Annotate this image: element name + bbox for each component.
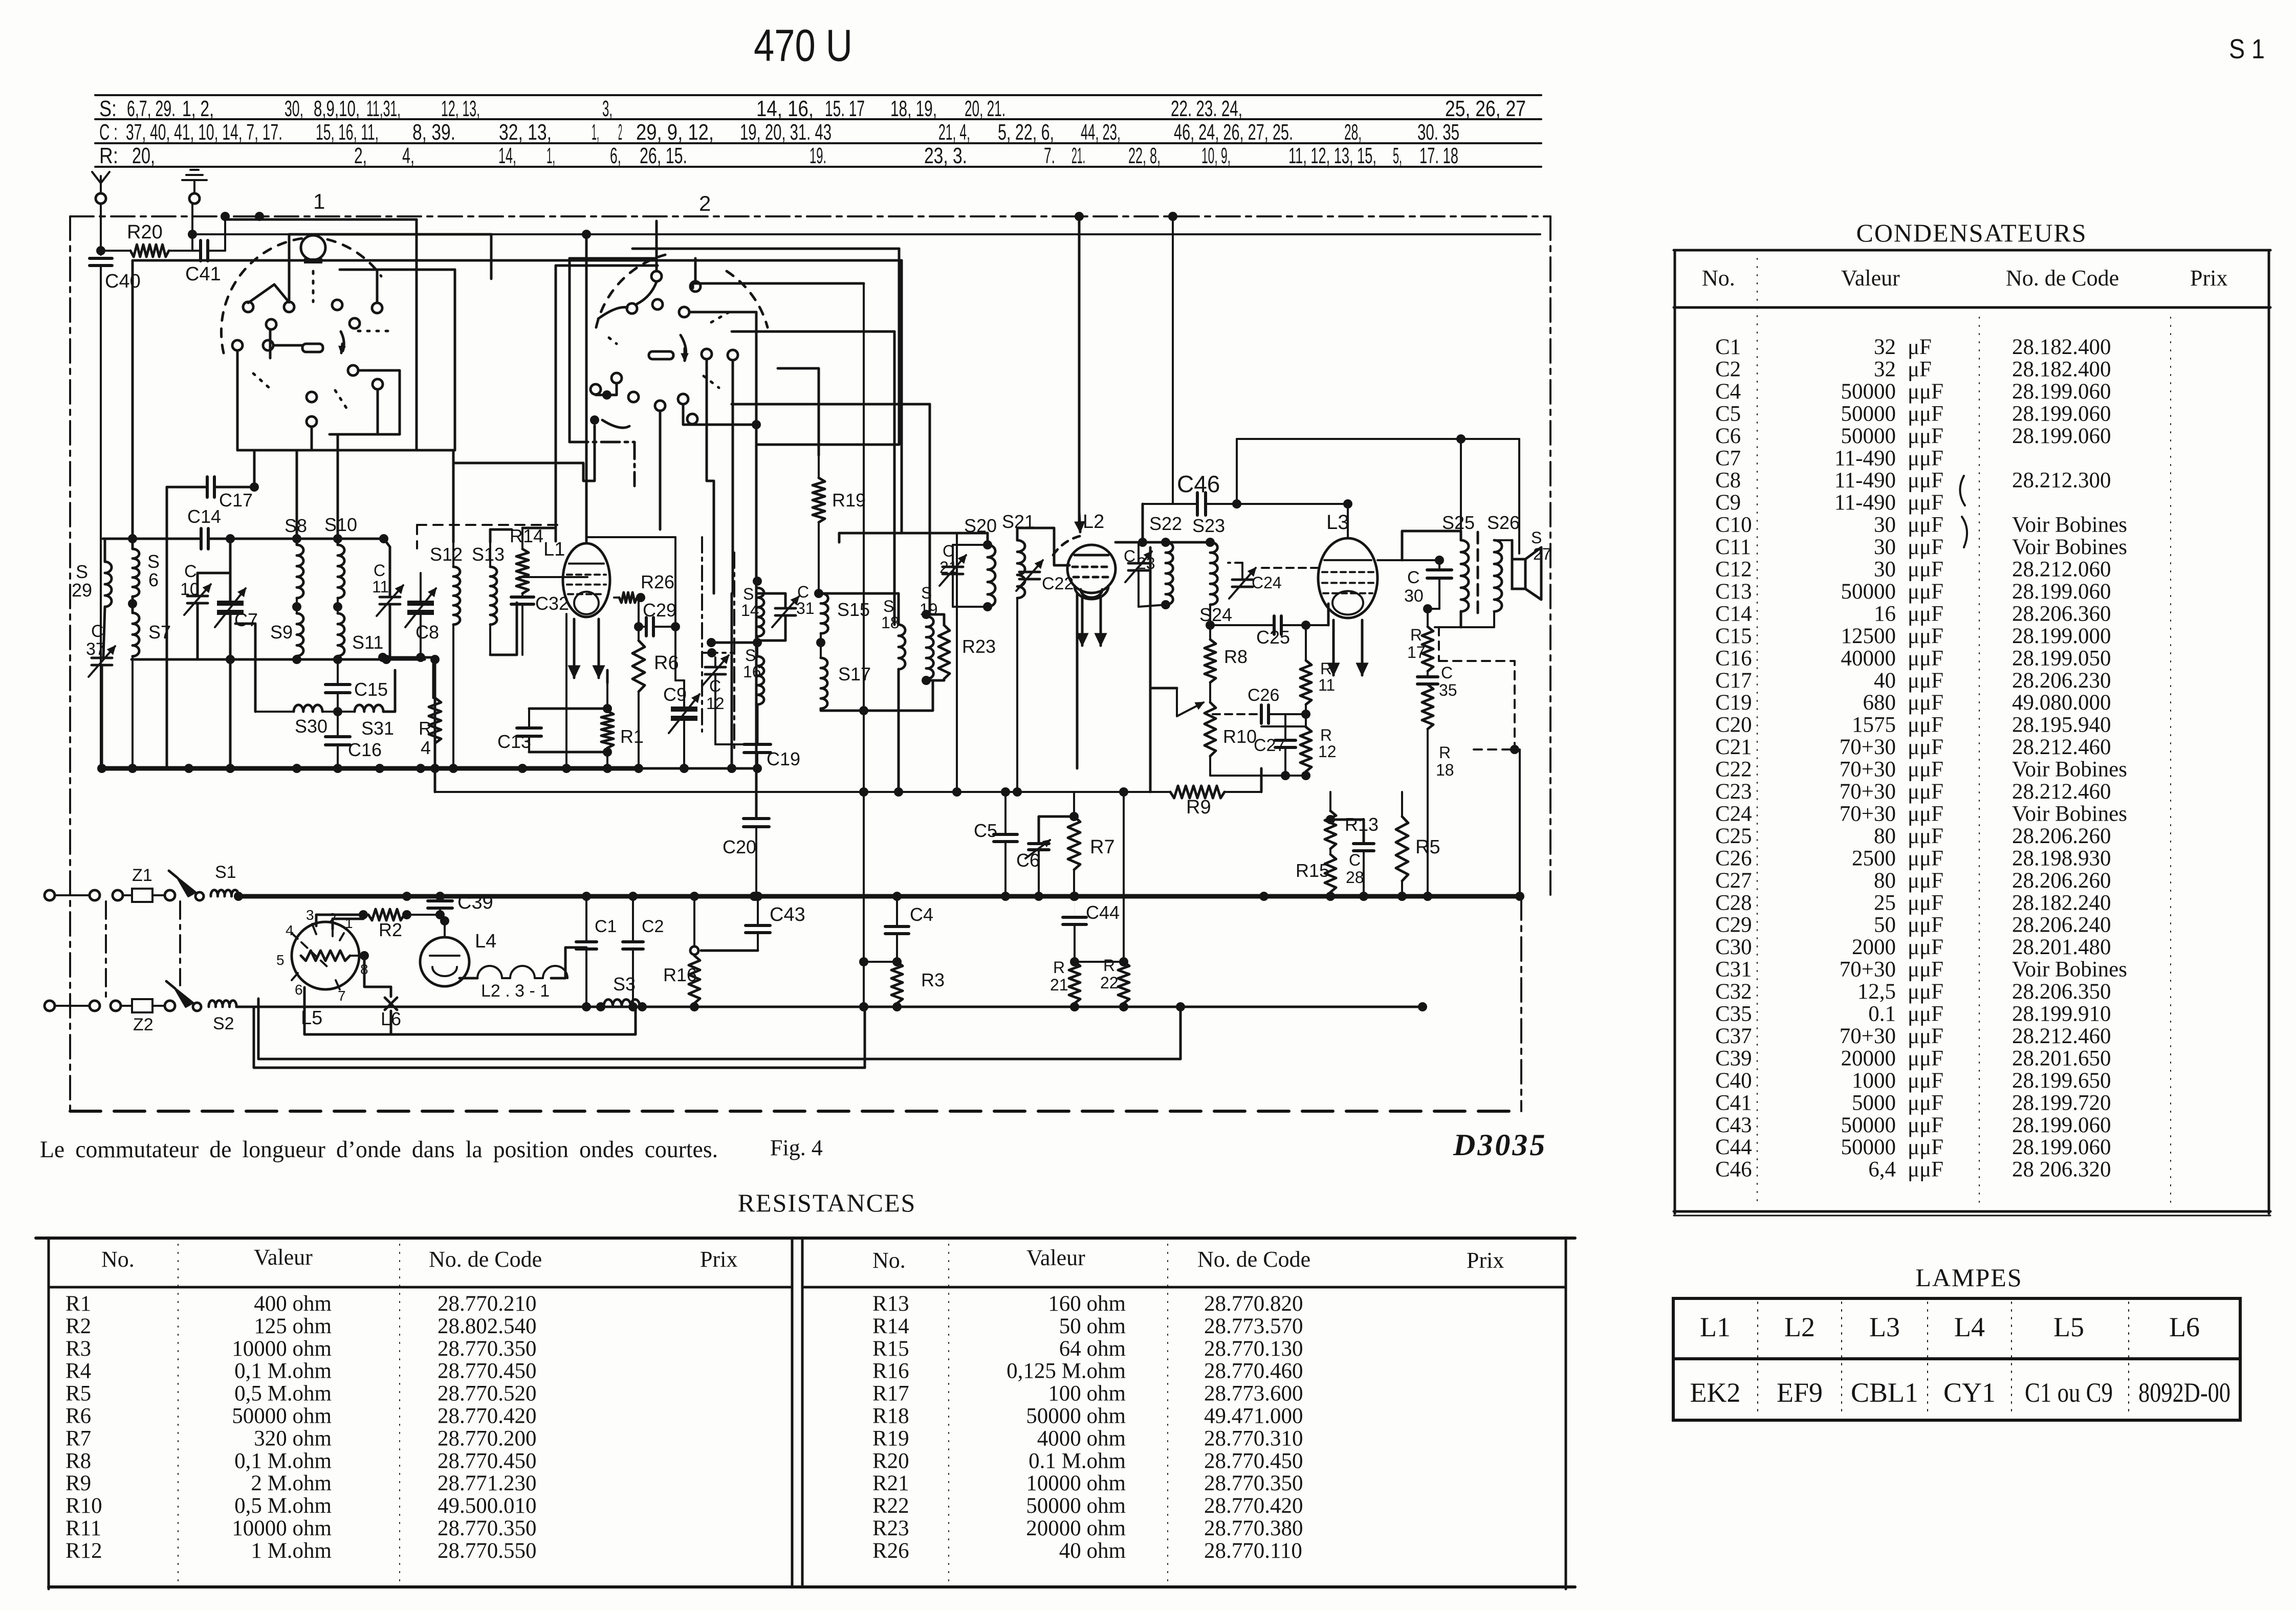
svg-text:14,: 14, (498, 143, 516, 168)
svg-text:C41: C41 (1715, 1091, 1752, 1115)
svg-text:0,5 M.ohm: 0,5 M.ohm (234, 1494, 332, 1518)
svg-text:R4: R4 (65, 1359, 91, 1383)
svg-text:6,7, 29.: 6,7, 29. (127, 96, 176, 121)
svg-text:R21: R21 (872, 1471, 909, 1495)
svg-text:R26: R26 (872, 1539, 909, 1563)
wire S10 feed (337, 434, 339, 545)
coil S18 (899, 625, 905, 669)
svg-text:70+30: 70+30 (1840, 958, 1896, 982)
svg-text:4,: 4, (402, 143, 414, 168)
switch ganged dash link (179, 901, 181, 985)
wire contact5 down (269, 329, 272, 358)
resistor R19 (818, 455, 820, 478)
svg-text:μμF: μμF (1908, 1113, 1943, 1137)
svg-text:28.770.820: 28.770.820 (1204, 1292, 1303, 1316)
svg-text:R18: R18 (872, 1404, 909, 1428)
svg-text:C41: C41 (185, 263, 221, 285)
wire S7 bottom to bus (132, 656, 134, 768)
wire wafer2 rail y519 (556, 264, 658, 267)
svg-text:R1: R1 (65, 1292, 91, 1316)
svg-text:64 ohm: 64 ohm (1059, 1337, 1126, 1361)
svg-text:28.199.720: 28.199.720 (2012, 1091, 2111, 1115)
svg-text:50000 ohm: 50000 ohm (1026, 1404, 1126, 1428)
svg-text:19, 20, 31. 43: 19, 20, 31. 43 (740, 120, 832, 145)
svg-text:C10: C10 (1715, 513, 1752, 537)
trimmer C21 (943, 566, 963, 568)
svg-text:28.770.450: 28.770.450 (438, 1449, 537, 1473)
svg-text:C46: C46 (1177, 471, 1220, 497)
dots on mains bus (234, 892, 243, 901)
svg-text:50000: 50000 (1841, 402, 1896, 426)
svg-text:No.: No. (1702, 266, 1735, 291)
svg-text:28.182.400: 28.182.400 (2012, 357, 2111, 381)
svg-text:Le commutateur de longueur d’o: Le commutateur de longueur d’onde dans l… (40, 1136, 718, 1163)
rotary switch wafer 1 arc (221, 238, 306, 353)
svg-text:49.500.010: 49.500.010 (438, 1494, 537, 1518)
svg-text:C15: C15 (1715, 624, 1752, 648)
svg-text:11: 11 (1318, 676, 1335, 694)
svg-text:Voir Bobines: Voir Bobines (2012, 513, 2127, 537)
wire contact12 elbow (683, 405, 756, 425)
svg-text:11-490: 11-490 (1834, 469, 1896, 493)
svg-text:28.201.650: 28.201.650 (2012, 1046, 2111, 1070)
svg-text:70+30: 70+30 (1840, 802, 1896, 826)
svg-text:R26: R26 (641, 571, 674, 592)
lamp L6 (364, 956, 391, 997)
wire feeder wafer2 y554 (693, 283, 864, 288)
svg-text:19.: 19. (810, 143, 826, 168)
svg-text:28.212.300: 28.212.300 (2012, 469, 2111, 493)
svg-text:C35: C35 (1715, 1002, 1752, 1026)
svg-text:1: 1 (313, 189, 325, 213)
svg-text:15, 16, 11,: 15, 16, 11, (316, 120, 379, 145)
wire ground terminal down (191, 204, 193, 251)
svg-text:C17: C17 (219, 490, 253, 511)
svg-text:C: C (1124, 547, 1135, 565)
svg-text:μμF: μμF (1908, 624, 1943, 648)
svg-text:S31: S31 (361, 718, 394, 739)
svg-text:16: 16 (743, 663, 761, 681)
svg-text:R2: R2 (65, 1314, 91, 1338)
svg-text:70+30: 70+30 (1840, 758, 1896, 782)
wire contact7 down (236, 350, 239, 450)
svg-text:C21: C21 (1715, 735, 1752, 759)
svg-text:28.206.360: 28.206.360 (2012, 602, 2111, 626)
schematic right dash-dot border (1549, 216, 1551, 896)
svg-text:R8: R8 (1224, 646, 1248, 667)
svg-text:23: 23 (1137, 554, 1155, 572)
coil S26 secondary (1494, 540, 1502, 611)
wafer 1 moving bridge (248, 284, 289, 303)
svg-text:8092D-00: 8092D-00 (2138, 1377, 2231, 1408)
svg-text:No. de Code: No. de Code (2006, 266, 2119, 291)
svg-text:50000: 50000 (1841, 1113, 1896, 1137)
speaker S27 (1512, 559, 1525, 589)
svg-text:R: R (1103, 956, 1115, 975)
resistances column lines (178, 1244, 179, 1583)
resistor R12 (1300, 727, 1311, 771)
dashed arc at L2 (1053, 536, 1080, 555)
svg-text:μμF: μμF (1908, 558, 1943, 582)
svg-text:30,: 30, (285, 96, 303, 121)
svg-text:R10: R10 (1223, 726, 1257, 747)
wire left junction row (132, 658, 425, 661)
coil S11 (338, 613, 344, 656)
trimmer C11 (380, 596, 400, 599)
svg-text:C30: C30 (1715, 935, 1752, 959)
svg-text:28.206.260: 28.206.260 (2012, 869, 2111, 893)
svg-text:R22: R22 (872, 1494, 909, 1518)
svg-text:μμF: μμF (1908, 735, 1943, 759)
wire contact8 to slot (273, 344, 302, 347)
coil S9 (297, 613, 303, 656)
wire L2 top feed (1078, 216, 1081, 526)
svg-text:70+30: 70+30 (1840, 780, 1896, 804)
svg-text:28.198.930: 28.198.930 (2012, 846, 2111, 870)
capacitor C17 (167, 486, 207, 489)
svg-text:C26: C26 (1715, 846, 1752, 870)
svg-text:28.199.650: 28.199.650 (2012, 1069, 2111, 1093)
svg-text:R8: R8 (65, 1449, 91, 1473)
svg-text:C: C (797, 583, 809, 601)
svg-text:C19: C19 (767, 748, 800, 769)
wire S16 bottom (756, 704, 759, 744)
svg-text:μμF: μμF (1908, 891, 1943, 915)
L2 plate rail to S22 S23 (1116, 541, 1210, 544)
wire top output rail (1237, 438, 1519, 440)
svg-text:18: 18 (1436, 761, 1454, 779)
capacitor C46 (1143, 503, 1198, 505)
resistor R15 (1325, 854, 1336, 892)
svg-text:0,1 M.ohm: 0,1 M.ohm (234, 1359, 332, 1383)
svg-text:37, 40, 41, 10, 14, 7, 17.: 37, 40, 41, 10, 14, 7, 17. (126, 120, 282, 145)
svg-text:7: 7 (338, 988, 346, 1004)
svg-text:31: 31 (796, 599, 815, 617)
wire wafer2 dash-dot shaft (568, 258, 571, 442)
capacitor C1 (582, 892, 591, 901)
C7-C9 brace (1960, 476, 1965, 505)
vertical right bus end (1519, 749, 1521, 896)
svg-text:R7: R7 (65, 1426, 91, 1450)
svg-text:28.770.350: 28.770.350 (438, 1516, 537, 1540)
resistor R4 (383, 657, 435, 698)
resistor R6 (632, 641, 645, 692)
svg-text:28.201.480: 28.201.480 (2012, 935, 2111, 959)
vertical drop x2196 from detector (1123, 792, 1125, 962)
svg-text:μμF: μμF (1908, 1091, 1943, 1115)
resistor R9 (1170, 786, 1224, 798)
svg-text:R5: R5 (65, 1382, 91, 1406)
svg-text:14, 16,: 14, 16, (756, 96, 814, 121)
condensateurs table frame (1674, 249, 2270, 252)
svg-text:28 206.320: 28 206.320 (2012, 1158, 2111, 1182)
svg-text:6,4: 6,4 (1868, 1158, 1896, 1182)
trimmer C37 (103, 607, 105, 656)
svg-text:28.206.240: 28.206.240 (2012, 913, 2111, 937)
svg-text:R: R (1053, 958, 1065, 977)
svg-text:μμF: μμF (1908, 802, 1943, 826)
svg-text:μμF: μμF (1908, 602, 1943, 626)
svg-text:C26: C26 (1248, 686, 1279, 705)
svg-text:R1: R1 (620, 726, 644, 747)
mains bus thick (238, 894, 1520, 899)
svg-text:10000 ohm: 10000 ohm (1026, 1471, 1126, 1495)
svg-text:R3: R3 (65, 1337, 91, 1361)
svg-text:2: 2 (699, 191, 711, 215)
svg-text:Prix: Prix (2190, 266, 2227, 291)
wire wafer2 left vertical (555, 266, 557, 528)
svg-text:50000 ohm: 50000 ohm (1026, 1494, 1126, 1518)
coil S23 (1210, 542, 1217, 605)
wire feeder row y497 (134, 259, 902, 262)
wire S21 top to L2 grid (1017, 528, 1069, 565)
svg-text:23, 3.: 23, 3. (924, 143, 967, 168)
svg-text:15. 17: 15. 17 (825, 96, 865, 121)
svg-text:CONDENSATEURS: CONDENSATEURS (1856, 218, 2087, 247)
svg-text:Valeur: Valeur (254, 1245, 313, 1270)
switch table frame lines (95, 94, 1541, 96)
wire S26 to speaker (1494, 539, 1512, 541)
svg-text:Valeur: Valeur (1026, 1245, 1085, 1270)
svg-text:C37: C37 (1715, 1024, 1752, 1048)
capacitor C40 (90, 257, 112, 260)
svg-text:μμF: μμF (1908, 446, 1943, 470)
coil S15 (821, 593, 828, 633)
resistor R11 (1300, 660, 1311, 704)
svg-text:4: 4 (421, 737, 431, 758)
svg-text:22: 22 (1100, 974, 1119, 992)
svg-text:C7: C7 (1715, 446, 1741, 470)
svg-text:CBL1: CBL1 (1851, 1377, 1918, 1408)
svg-text:LAMPES: LAMPES (1915, 1263, 2022, 1292)
wire long vertical x1817 to S19 (929, 404, 931, 611)
svg-text:C11: C11 (1715, 535, 1751, 559)
svg-text:C39: C39 (1715, 1046, 1752, 1070)
svg-text:Fig. 4: Fig. 4 (770, 1135, 823, 1160)
wire wafer1 feed horizontals (252, 218, 417, 221)
svg-text:18: 18 (881, 613, 900, 632)
svg-text:R20: R20 (127, 222, 163, 243)
coil S13 (490, 567, 497, 625)
svg-text:C2: C2 (642, 917, 664, 936)
AVC detector rail (435, 791, 1170, 793)
svg-text:S13: S13 (472, 544, 505, 565)
capacitor C41 (196, 250, 201, 252)
mains link dashes (105, 901, 107, 1000)
wire long vertical x326 (166, 487, 168, 768)
mains input terminals (45, 890, 55, 900)
wire L1 cathode down (565, 614, 567, 768)
capacitor C13 (528, 709, 530, 728)
trimmer C23 (1128, 562, 1149, 565)
svg-text:L3: L3 (1869, 1312, 1900, 1342)
svg-text:C39: C39 (457, 892, 493, 913)
capacitor C39 (435, 892, 445, 901)
heater winding L2.3-1 (460, 977, 477, 980)
wire long vertical x814 (416, 219, 418, 450)
svg-text:0,5 M.ohm: 0,5 M.ohm (234, 1382, 332, 1406)
svg-text:S: S (921, 584, 932, 602)
svg-text:50 ohm: 50 ohm (1059, 1314, 1126, 1338)
svg-text:μμF: μμF (1908, 980, 1943, 1004)
wire heater winding right (551, 947, 586, 978)
svg-text:C16: C16 (348, 739, 382, 760)
svg-text:μμF: μμF (1908, 935, 1943, 959)
svg-text:125 ohm: 125 ohm (254, 1314, 332, 1338)
svg-text:11, 12, 13, 15,: 11, 12, 13, 15, (1288, 143, 1376, 168)
svg-text:21, 4,: 21, 4, (938, 120, 970, 145)
mains lower bus (236, 1006, 1423, 1008)
dial drive pulley on wafer 1 (301, 235, 325, 260)
svg-text:C20: C20 (1715, 713, 1752, 737)
resistor R26 (614, 597, 619, 599)
svg-text:R23: R23 (872, 1516, 909, 1540)
svg-text:C13: C13 (1715, 580, 1752, 604)
trimmer C12 (705, 666, 726, 669)
coil S30 (294, 705, 322, 712)
variable capacitor C9 (671, 707, 697, 712)
svg-text:S10: S10 (324, 514, 357, 535)
potentiometer R10 (1205, 702, 1216, 756)
svg-text:12, 13,: 12, 13, (441, 96, 480, 121)
coil S22 (1166, 542, 1173, 605)
svg-text:C43: C43 (1715, 1113, 1752, 1137)
svg-text:50000 ohm: 50000 ohm (232, 1404, 332, 1428)
svg-text:4000 ohm: 4000 ohm (1037, 1426, 1126, 1450)
svg-text:14: 14 (741, 601, 759, 620)
svg-text:C6: C6 (1016, 850, 1040, 871)
svg-text:S 1: S 1 (2229, 34, 2265, 64)
trimmer C22 (1019, 571, 1040, 573)
svg-text:28.199.060: 28.199.060 (2012, 1135, 2111, 1159)
svg-text:Prix: Prix (700, 1247, 737, 1272)
svg-text:L6: L6 (2169, 1312, 2200, 1342)
svg-text:C4: C4 (1715, 380, 1741, 404)
svg-text:C: C (184, 562, 197, 581)
svg-text:28.212.460: 28.212.460 (2012, 1024, 2111, 1048)
wire feeder wafer2 y790 (732, 403, 930, 406)
svg-text:C23: C23 (1715, 780, 1752, 804)
svg-text:C2: C2 (1715, 357, 1741, 381)
trimmer C31 (775, 607, 796, 610)
svg-text:R20: R20 (872, 1449, 909, 1473)
svg-text:28.182.400: 28.182.400 (2012, 335, 2111, 359)
svg-text:1,: 1, (592, 120, 599, 145)
coil S3 (604, 1000, 640, 1007)
svg-text:R23: R23 (962, 636, 996, 657)
svg-text:D3035: D3035 (1453, 1128, 1547, 1162)
vertical feed x1688 (863, 283, 865, 1007)
capacitor C4 (892, 892, 902, 901)
svg-text:C24: C24 (1715, 802, 1752, 826)
svg-text:8, 39.: 8, 39. (412, 120, 455, 145)
node C4-R3 (892, 957, 902, 966)
svg-text:S: S (883, 597, 894, 615)
svg-text:10, 9,: 10, 9, (1201, 143, 1231, 168)
tube L1 EK2 (563, 543, 610, 617)
svg-text:11,31,: 11,31, (366, 96, 401, 121)
coil S20 (988, 545, 995, 607)
svg-text:C22: C22 (1715, 758, 1752, 782)
capacitor C19 (744, 743, 771, 746)
svg-text:28.770.380: 28.770.380 (1204, 1516, 1303, 1540)
svg-text:L2 . 3 - 1: L2 . 3 - 1 (481, 981, 550, 1001)
svg-text:R2: R2 (379, 919, 402, 940)
svg-text:18, 19,: 18, 19, (890, 96, 937, 121)
svg-text:C44: C44 (1086, 902, 1120, 923)
HT solid top rail (192, 233, 1540, 235)
svg-text:R15: R15 (872, 1337, 909, 1361)
wire wafer1 mesh bottom (237, 449, 455, 452)
svg-text:1, 2,: 1, 2, (182, 96, 214, 121)
svg-text:28.773.600: 28.773.600 (1204, 1382, 1303, 1406)
wire S12 top mesh (452, 450, 455, 542)
switch S2 (175, 988, 193, 1007)
svg-text:L4: L4 (475, 931, 496, 952)
resistor R2 (359, 910, 368, 919)
dots on lower bus (582, 1002, 591, 1011)
svg-text:R: R (419, 718, 432, 739)
wire long vertical x889 (454, 270, 456, 450)
svg-text:28.771.230: 28.771.230 (438, 1471, 537, 1495)
svg-text:Voir Bobines: Voir Bobines (2012, 758, 2127, 782)
svg-text:R13: R13 (872, 1292, 909, 1316)
wire S18 top (819, 593, 899, 625)
L3 grid wire (1327, 604, 1330, 625)
svg-text:32: 32 (1874, 357, 1896, 381)
svg-text:R9: R9 (65, 1471, 91, 1495)
svg-text:32: 32 (1874, 335, 1896, 359)
svg-text:30: 30 (1874, 558, 1896, 582)
svg-text:50000: 50000 (1841, 1135, 1896, 1159)
condensateurs column lines (1757, 258, 1758, 1207)
wire vertical x2248 AVC to S22 (1149, 547, 1152, 688)
coil S17 (821, 658, 827, 709)
svg-text:49.080.000: 49.080.000 (2012, 691, 2111, 715)
svg-text:44, 23,: 44, 23, (1081, 120, 1121, 145)
svg-text:μμF: μμF (1908, 824, 1943, 848)
wire S8 feed (296, 450, 298, 545)
schematic bottom dashed border (70, 1110, 1522, 1113)
svg-text:28.770.310: 28.770.310 (1204, 1426, 1303, 1450)
svg-text:49.471.000: 49.471.000 (1204, 1404, 1303, 1428)
resistor R20 (101, 250, 129, 252)
capacitor C30 (1438, 560, 1440, 568)
capacitor C16 (337, 712, 339, 737)
svg-text:C17: C17 (1715, 669, 1752, 693)
svg-text:28.212.460: 28.212.460 (2012, 780, 2111, 804)
svg-text:28.770.110: 28.770.110 (1204, 1539, 1302, 1563)
svg-text:100 ohm: 100 ohm (1048, 1382, 1126, 1406)
svg-text:20, 21.: 20, 21. (965, 96, 1005, 121)
wire contact12 down (311, 427, 313, 450)
wire L3 plate row (1377, 559, 1402, 561)
svg-text:C27: C27 (1254, 736, 1285, 755)
svg-text:7.: 7. (1044, 143, 1055, 168)
svg-text:μμF: μμF (1908, 1024, 1943, 1048)
L1 grid wire (519, 576, 587, 578)
svg-text:28.770.350: 28.770.350 (438, 1337, 537, 1361)
coil S6 (133, 549, 139, 597)
svg-text:40000: 40000 (1841, 646, 1896, 670)
svg-text:C25: C25 (1256, 627, 1290, 648)
schematic left dash-dot border (69, 216, 71, 1111)
wire S6-S7 junction (132, 597, 134, 613)
resistor R18 (1422, 685, 1433, 729)
wire S17 bottom row (821, 680, 933, 711)
wire wafer2 rail y505 (570, 257, 657, 260)
svg-text:80: 80 (1874, 869, 1896, 893)
